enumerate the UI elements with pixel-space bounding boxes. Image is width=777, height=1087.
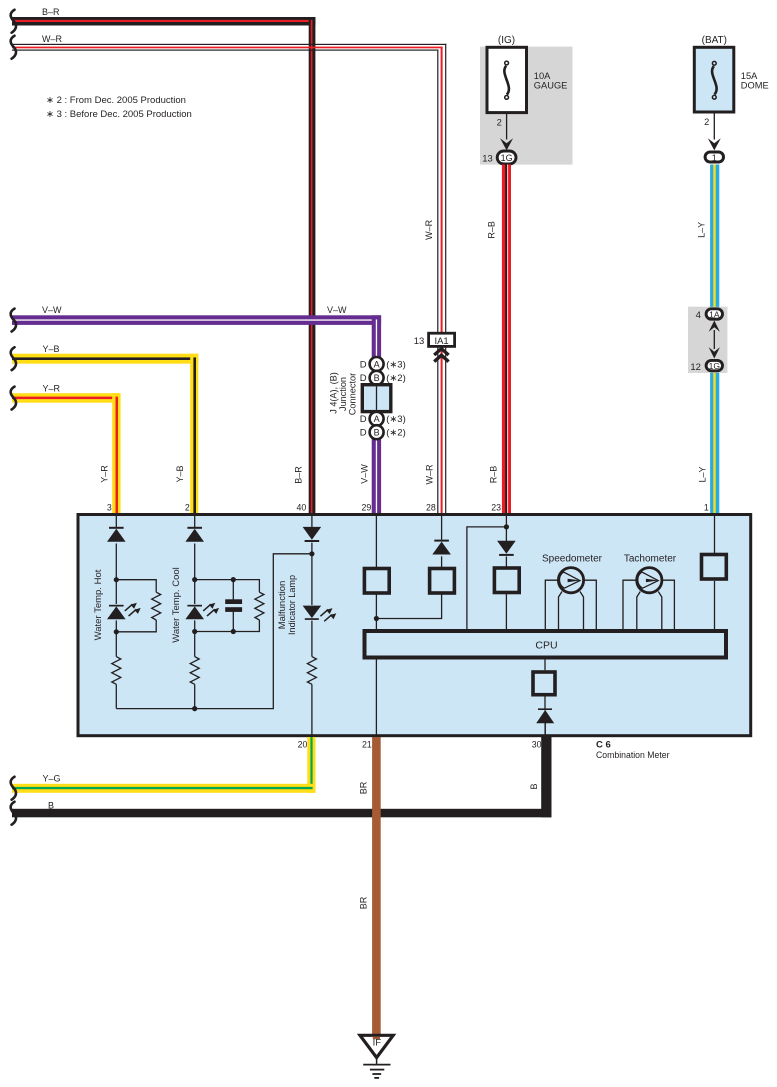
- rotated label Y-B above pin 2: [175, 465, 185, 482]
- label Y-B: [43, 344, 60, 354]
- svg-text:BR: BR: [359, 896, 369, 909]
- label V-W left: [42, 305, 62, 315]
- svg-text:2: 2: [497, 117, 502, 127]
- svg-text:10A: 10A: [534, 71, 551, 81]
- tachometer: [623, 554, 677, 630]
- svg-text:R–B: R–B: [487, 221, 497, 239]
- wire between connector arrows: [713, 330, 715, 349]
- svg-text:1: 1: [712, 153, 717, 163]
- wire B-R vertical to pin 40: [309, 17, 316, 515]
- component box pin 23: [494, 568, 519, 593]
- label B-R: [42, 7, 60, 17]
- wire B thick vertical from pin 30: [541, 735, 551, 818]
- svg-text:Y–R: Y–R: [100, 465, 110, 483]
- wire Y-G vertical from pin 20: [307, 737, 315, 793]
- rotated label L-Y above pin 1: [697, 466, 707, 482]
- label 4: [696, 310, 701, 321]
- connector oval 1G: [497, 151, 516, 164]
- svg-text:Indicator Lamp: Indicator Lamp: [287, 575, 298, 635]
- svg-text:W–R: W–R: [424, 219, 434, 240]
- wire Y-B vertical to pin 2: [190, 354, 198, 515]
- svg-text:R–B: R–B: [489, 466, 499, 484]
- wire Y-B horizontal: [12, 354, 198, 364]
- common rail sensors: [116, 554, 312, 709]
- wire pin 3 branch: [116, 516, 156, 709]
- svg-text:21: 21: [362, 740, 372, 750]
- label Y-G: [43, 773, 61, 783]
- svg-text:Connector: Connector: [348, 373, 359, 416]
- svg-text:∗ 2 : From Dec. 2005 Producti: ∗ 2 : From Dec. 2005 Production: [46, 95, 186, 106]
- svg-text:13: 13: [414, 336, 425, 347]
- wire pin 30 branch: [544, 660, 546, 711]
- diode pin 23 (down): [497, 541, 516, 556]
- node pin3 bottom junction: [114, 629, 119, 634]
- svg-text:C 6: C 6: [596, 740, 611, 751]
- rotated label BR upper: [359, 781, 369, 794]
- connector box IA1: [429, 333, 455, 347]
- speedometer: [542, 554, 603, 630]
- svg-text:DOME: DOME: [741, 81, 769, 91]
- svg-text:3: 3: [107, 502, 112, 512]
- svg-text:12: 12: [690, 362, 701, 373]
- wire link pin28 to pin29 node: [376, 594, 441, 619]
- svg-text:B–R: B–R: [294, 466, 304, 484]
- pin number 20: [298, 740, 308, 750]
- svg-text:L–Y: L–Y: [697, 222, 707, 238]
- connector arrow (BAT): [708, 138, 721, 150]
- wire R-B vertical to pin 23: [502, 165, 511, 516]
- wire L-Y vertical lower to pin 1: [710, 372, 719, 515]
- label W-R: [42, 34, 63, 44]
- pin number 23: [491, 502, 501, 512]
- component box pin 30: [533, 672, 555, 695]
- squiggle Y-G: [11, 777, 16, 800]
- svg-text:4: 4: [696, 310, 701, 321]
- chevron arrow below IA1: [434, 349, 448, 362]
- label (BAT): [702, 35, 727, 46]
- label C 6 Combination Meter: [596, 740, 670, 762]
- combination meter box C6: [78, 515, 751, 736]
- node pin2 bottom junction: [192, 629, 197, 634]
- svg-text:W–R: W–R: [42, 34, 63, 44]
- labels D pins: [360, 359, 367, 438]
- svg-text:(BAT): (BAT): [702, 35, 727, 46]
- svg-text:Speedometer: Speedometer: [542, 554, 603, 565]
- svg-text:(IG): (IG): [498, 35, 515, 46]
- svg-text:V–W: V–W: [42, 305, 62, 315]
- connector arrow up (1A): [709, 321, 720, 332]
- resistor series pin2: [190, 657, 199, 685]
- svg-text:B: B: [374, 428, 380, 438]
- svg-text:B–R: B–R: [42, 7, 60, 17]
- connector oval 1G lower: [706, 360, 722, 371]
- wire pin 2 branch: [195, 516, 260, 709]
- svg-text:Tachometer: Tachometer: [624, 554, 677, 565]
- node pin29 junction: [374, 616, 379, 621]
- squiggle Y-R: [11, 387, 16, 410]
- wire L-Y vertical upper: [710, 165, 719, 308]
- component box pin 29: [364, 569, 389, 594]
- svg-text:A: A: [374, 414, 380, 424]
- wire pin 1 branch: [714, 516, 716, 630]
- labels (*3)(*2): [386, 359, 406, 438]
- wire pin 29 branch: [375, 516, 377, 736]
- note *3 production: [46, 109, 192, 120]
- svg-text:(∗3): (∗3): [386, 359, 406, 370]
- label Water Temp. Cool (rotated): [171, 567, 182, 643]
- svg-text:23: 23: [491, 502, 501, 512]
- rotated label V-W above pin 29: [359, 464, 369, 484]
- svg-text:20: 20: [298, 740, 308, 750]
- svg-text:Water Temp. Hot: Water Temp. Hot: [93, 569, 104, 640]
- wire fuse BAT to connector: [713, 112, 715, 140]
- svg-text:A: A: [374, 359, 380, 369]
- node capacitor bottom: [231, 629, 236, 634]
- rotated label B at pin 30: [529, 783, 539, 789]
- svg-text:IF: IF: [373, 1037, 382, 1048]
- pin number 21: [362, 740, 372, 750]
- wire pin 23 branch: [467, 516, 507, 630]
- svg-text:(∗2): (∗2): [386, 428, 406, 439]
- svg-text:13: 13: [482, 154, 493, 165]
- connector arrow (IG): [500, 138, 513, 150]
- svg-text:V–W: V–W: [327, 305, 347, 315]
- capacitor pin2 branch: [225, 599, 242, 612]
- diode pin 3: [107, 527, 126, 542]
- shaded background 1A/1G connector area: [688, 307, 727, 373]
- svg-text:Y–R: Y–R: [43, 384, 61, 394]
- svg-text:Water Temp. Cool: Water Temp. Cool: [171, 567, 182, 643]
- label J 4(A),(B) Junction Connector (rotated): [329, 372, 359, 415]
- wire V-W vertical to pin 29: [372, 315, 381, 515]
- svg-text:D: D: [360, 428, 367, 439]
- note *2 production: [46, 95, 186, 106]
- svg-text:Y–B: Y–B: [43, 344, 60, 354]
- svg-text:B: B: [48, 801, 54, 811]
- wire BR brown vertical from pin 21: [372, 737, 381, 1035]
- node pin2 top junction: [192, 577, 197, 582]
- wire V-W horizontal: [12, 315, 381, 325]
- svg-text:2: 2: [185, 502, 190, 512]
- svg-text:B: B: [374, 373, 380, 383]
- pin label 2 (IG): [497, 117, 502, 127]
- LED water temp hot: [107, 603, 141, 619]
- label Water Temp. Hot (rotated): [93, 569, 104, 640]
- pin number 28: [426, 502, 436, 512]
- svg-text:1G: 1G: [501, 153, 513, 163]
- pin number 1: [704, 502, 709, 512]
- LED water temp cool: [185, 603, 219, 619]
- pin number 3: [107, 502, 112, 512]
- rotated label Y-R above pin 3: [100, 465, 110, 483]
- squiggle V-W: [11, 309, 16, 332]
- resistor parallel pin3: [152, 592, 161, 620]
- rotated label R-B mid: [487, 221, 497, 239]
- diode pin 2: [185, 527, 204, 542]
- wire W-R vertical to pin 28: [437, 44, 446, 515]
- svg-text:30: 30: [532, 739, 542, 749]
- node capacitor top: [231, 577, 236, 582]
- shaded background IG fuse area: [480, 47, 573, 165]
- svg-text:(∗3): (∗3): [386, 414, 406, 425]
- label 13 (1G connector): [482, 154, 493, 165]
- fuse 15A DOME (BAT): [694, 47, 734, 112]
- connector oval 1A: [706, 309, 722, 320]
- svg-text:1: 1: [704, 502, 709, 512]
- svg-text:28: 28: [426, 502, 436, 512]
- svg-text:40: 40: [297, 502, 307, 512]
- svg-text:L–Y: L–Y: [697, 466, 707, 482]
- connector arrow down (1G): [709, 347, 720, 358]
- svg-text:(∗2): (∗2): [386, 373, 406, 384]
- label 10A GAUGE: [534, 71, 568, 91]
- label Y-R: [43, 384, 61, 394]
- pin number 40: [297, 502, 307, 512]
- wire Y-R horizontal: [12, 393, 120, 403]
- svg-text:29: 29: [362, 502, 372, 512]
- label V-W right: [327, 305, 347, 315]
- svg-text:Y–B: Y–B: [175, 465, 185, 482]
- label 13 (IA1): [414, 336, 425, 347]
- svg-text:1G: 1G: [709, 361, 720, 371]
- svg-text:B: B: [529, 783, 539, 789]
- connector oval 1: [705, 152, 723, 163]
- wire B-R horizontal: [12, 17, 315, 26]
- diode pin 40 (down): [303, 527, 322, 542]
- svg-text:IA1: IA1: [434, 336, 448, 347]
- wire B thick horizontal: [12, 809, 552, 818]
- squiggle B-R: [11, 10, 16, 33]
- wire fuse IG to connector: [506, 113, 508, 140]
- svg-text:Y–G: Y–G: [43, 773, 61, 783]
- squiggle W-R: [11, 36, 16, 59]
- wire pin 28 branch: [441, 516, 443, 567]
- svg-text:1A: 1A: [709, 309, 720, 319]
- label (IG): [498, 35, 515, 46]
- resistor parallel pin2: [255, 592, 264, 620]
- svg-text:D: D: [360, 359, 367, 370]
- ground IF: [360, 1035, 393, 1078]
- svg-text:2: 2: [704, 117, 709, 127]
- wire Y-R vertical to pin 3: [112, 393, 120, 515]
- squiggle Y-B: [11, 347, 16, 370]
- CPU block: [365, 631, 727, 658]
- rotated label W-R above pin 28: [425, 464, 435, 485]
- diode pin 28: [432, 540, 451, 555]
- svg-text:D: D: [360, 373, 367, 384]
- diode pin 30: [536, 708, 554, 736]
- pin number 30: [532, 739, 542, 749]
- resistor series pin3: [112, 657, 121, 685]
- LED malfunction indicator lamp (down): [303, 606, 337, 622]
- node rail pin2: [192, 706, 197, 711]
- pin label 2 (BAT): [704, 117, 709, 127]
- label 15A DOME: [741, 71, 769, 91]
- rotated label W-R mid: [424, 219, 434, 240]
- resistor series pin40: [307, 657, 316, 685]
- pin number 29: [362, 502, 372, 512]
- component box pin 1: [702, 555, 727, 580]
- label 12: [690, 362, 701, 373]
- fuse 10A GAUGE (IG): [487, 47, 527, 112]
- label Malfunction Indicator Lamp (rotated): [277, 575, 298, 635]
- svg-text:15A: 15A: [741, 71, 758, 81]
- node pin3 top junction: [114, 577, 119, 582]
- node pin23 junction: [504, 524, 509, 529]
- wire Y-G horizontal: [12, 784, 316, 793]
- junction connector J4(A),(B): [362, 357, 391, 439]
- pin number 2: [185, 502, 190, 512]
- svg-text:BR: BR: [359, 781, 369, 794]
- component box pin 28: [430, 569, 455, 594]
- rotated label BR lower: [359, 896, 369, 909]
- rotated label B-R above pin 40: [294, 466, 304, 484]
- label B left: [48, 801, 54, 811]
- svg-text:CPU: CPU: [535, 639, 557, 651]
- squiggle B: [11, 802, 16, 825]
- rotated label L-Y mid: [697, 222, 707, 238]
- svg-text:W–R: W–R: [425, 464, 435, 485]
- connector block 4/12 overlay: [688, 307, 727, 373]
- svg-text:GAUGE: GAUGE: [534, 81, 568, 91]
- node pin40 junction: [309, 551, 314, 556]
- rotated label R-B above pin 23: [489, 466, 499, 484]
- wire pin 40 branch: [311, 516, 313, 736]
- svg-text:V–W: V–W: [359, 464, 369, 484]
- svg-text:D: D: [360, 414, 367, 425]
- svg-text:Combination Meter: Combination Meter: [596, 750, 670, 761]
- svg-text:∗ 3 : Before Dec. 2005 Produc: ∗ 3 : Before Dec. 2005 Production: [46, 109, 192, 120]
- wire W-R horizontal: [12, 44, 446, 51]
